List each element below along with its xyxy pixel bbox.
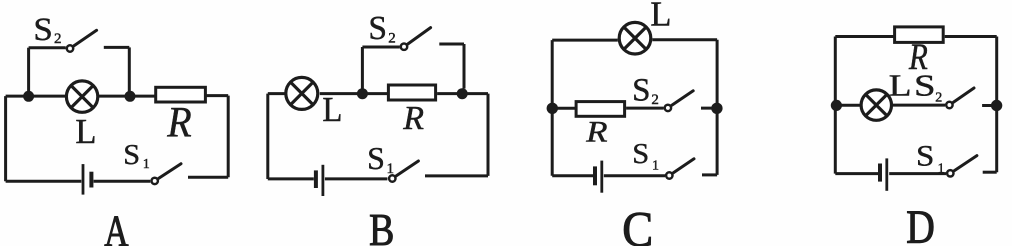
- lamp L (B): [286, 77, 318, 109]
- node A-right junction: [125, 91, 136, 102]
- wire D bottom right stub: [983, 171, 997, 174]
- wire A bottom rail left: [6, 180, 82, 183]
- svg-text:2: 2: [388, 30, 396, 46]
- wire C middle rail mid: [626, 107, 664, 110]
- svg-text:S: S: [123, 140, 140, 171]
- resistor R (C): [576, 102, 625, 117]
- wire C middle rail right stub: [701, 107, 717, 110]
- lamp L (A): [66, 81, 97, 112]
- svg-text:2: 2: [54, 31, 62, 47]
- svg-text:1: 1: [938, 162, 945, 177]
- switch S1 (C): [666, 159, 694, 179]
- node A-left junction: [23, 91, 34, 102]
- wire A top rail left: [6, 95, 67, 98]
- wire C bottom rail left: [552, 174, 593, 177]
- svg-text:1: 1: [143, 157, 150, 172]
- wire C bottom rail mid: [604, 174, 665, 177]
- svg-text:R: R: [402, 100, 424, 137]
- label S1 (C): [632, 139, 659, 174]
- wire D right edge: [995, 37, 998, 173]
- svg-text:A: A: [104, 207, 129, 246]
- wire A S2 branch down: [128, 47, 131, 91]
- switch S2 (C): [665, 91, 694, 111]
- switch S2 (A): [67, 30, 97, 51]
- wire D top rail left: [835, 35, 894, 38]
- node C-right junction: [711, 103, 722, 114]
- wire A S2 branch top right: [104, 46, 130, 49]
- switch S2 (B): [401, 28, 431, 50]
- svg-text:S: S: [33, 12, 52, 48]
- wire D top rail right: [945, 35, 997, 38]
- node B-left junction: [357, 88, 368, 99]
- resistor R (B): [388, 85, 435, 100]
- resistor R (A): [156, 87, 206, 102]
- wire A S2 branch up: [27, 48, 30, 96]
- svg-text:L: L: [322, 91, 342, 129]
- wire C top rail right: [652, 38, 717, 41]
- wire B bottom rail mid: [325, 177, 388, 180]
- label S1 (B): [367, 140, 394, 177]
- wire D middle rail right stub: [982, 104, 993, 107]
- svg-text:S: S: [367, 140, 385, 176]
- switch S2 (D): [946, 88, 974, 108]
- switch S1 (A): [152, 164, 182, 184]
- svg-text:S: S: [368, 10, 387, 47]
- wire A left edge: [4, 96, 7, 181]
- battery (D): [880, 158, 887, 190]
- svg-text:L: L: [650, 0, 671, 33]
- svg-text:R: R: [585, 115, 608, 148]
- svg-text:1: 1: [387, 161, 395, 177]
- node B-right junction: [457, 88, 468, 99]
- resistor R (D): [895, 27, 944, 43]
- wire B bottom right stub: [425, 174, 488, 177]
- wire C left edge: [551, 40, 554, 176]
- svg-text:S: S: [914, 68, 936, 102]
- svg-text:B: B: [369, 206, 394, 246]
- node D-left junction: [831, 100, 842, 111]
- wire A right edge: [227, 96, 230, 178]
- svg-text:1: 1: [652, 158, 659, 173]
- wire A S2 branch top left: [29, 46, 66, 49]
- switch S1 (D): [947, 156, 977, 177]
- svg-text:S: S: [916, 139, 934, 172]
- label S2 (D): [914, 68, 942, 105]
- battery (A): [83, 164, 91, 195]
- wire B S2 branch top left: [362, 46, 399, 49]
- wire D left edge: [834, 37, 837, 174]
- wire A bottom right stub: [188, 176, 228, 179]
- svg-text:R: R: [166, 98, 191, 146]
- label S1 (A): [123, 140, 149, 172]
- label S2 (A): [33, 12, 61, 48]
- wire D bottom rail left: [835, 172, 878, 175]
- svg-text:2: 2: [651, 92, 659, 108]
- switch S1 (B): [389, 161, 418, 182]
- svg-text:L: L: [75, 113, 96, 151]
- wire D middle rail left: [835, 104, 861, 107]
- wire C right edge: [716, 40, 719, 175]
- node D-right junction: [991, 100, 1002, 111]
- lamp L (C): [619, 22, 651, 54]
- svg-text:2: 2: [935, 91, 942, 106]
- wire B S2 branch top right: [439, 43, 464, 46]
- svg-text:L: L: [889, 69, 912, 103]
- wire C top rail left: [552, 39, 618, 42]
- wire B S2 branch up: [361, 47, 364, 94]
- svg-text:C: C: [622, 202, 653, 246]
- label S1 (D): [916, 139, 945, 177]
- svg-text:D: D: [906, 200, 935, 246]
- wire B bottom rail left: [268, 177, 314, 180]
- wire C middle rail left: [552, 107, 576, 110]
- wire A resistor to right edge: [206, 94, 229, 97]
- node C-left junction: [547, 103, 558, 114]
- battery (B): [316, 165, 323, 196]
- wire B right edge: [487, 94, 490, 176]
- wire D bottom rail mid: [889, 172, 946, 175]
- wire B top rail mid: [320, 92, 389, 95]
- wire C bottom right stub: [702, 173, 717, 176]
- wire A top rail mid: [98, 95, 157, 98]
- svg-text:S: S: [632, 139, 649, 170]
- label S2 (B): [368, 10, 395, 47]
- wire A bottom rail mid: [94, 180, 151, 183]
- wire B top rail right: [437, 92, 488, 95]
- wire B left edge: [266, 94, 269, 179]
- wire D middle rail mid: [893, 104, 945, 107]
- battery (C): [595, 161, 602, 193]
- lamp L (D): [861, 90, 891, 120]
- wire B S2 branch down: [463, 44, 466, 89]
- svg-text:S: S: [632, 73, 650, 109]
- label S2 (C): [632, 73, 659, 109]
- wire B top rail left: [268, 92, 287, 95]
